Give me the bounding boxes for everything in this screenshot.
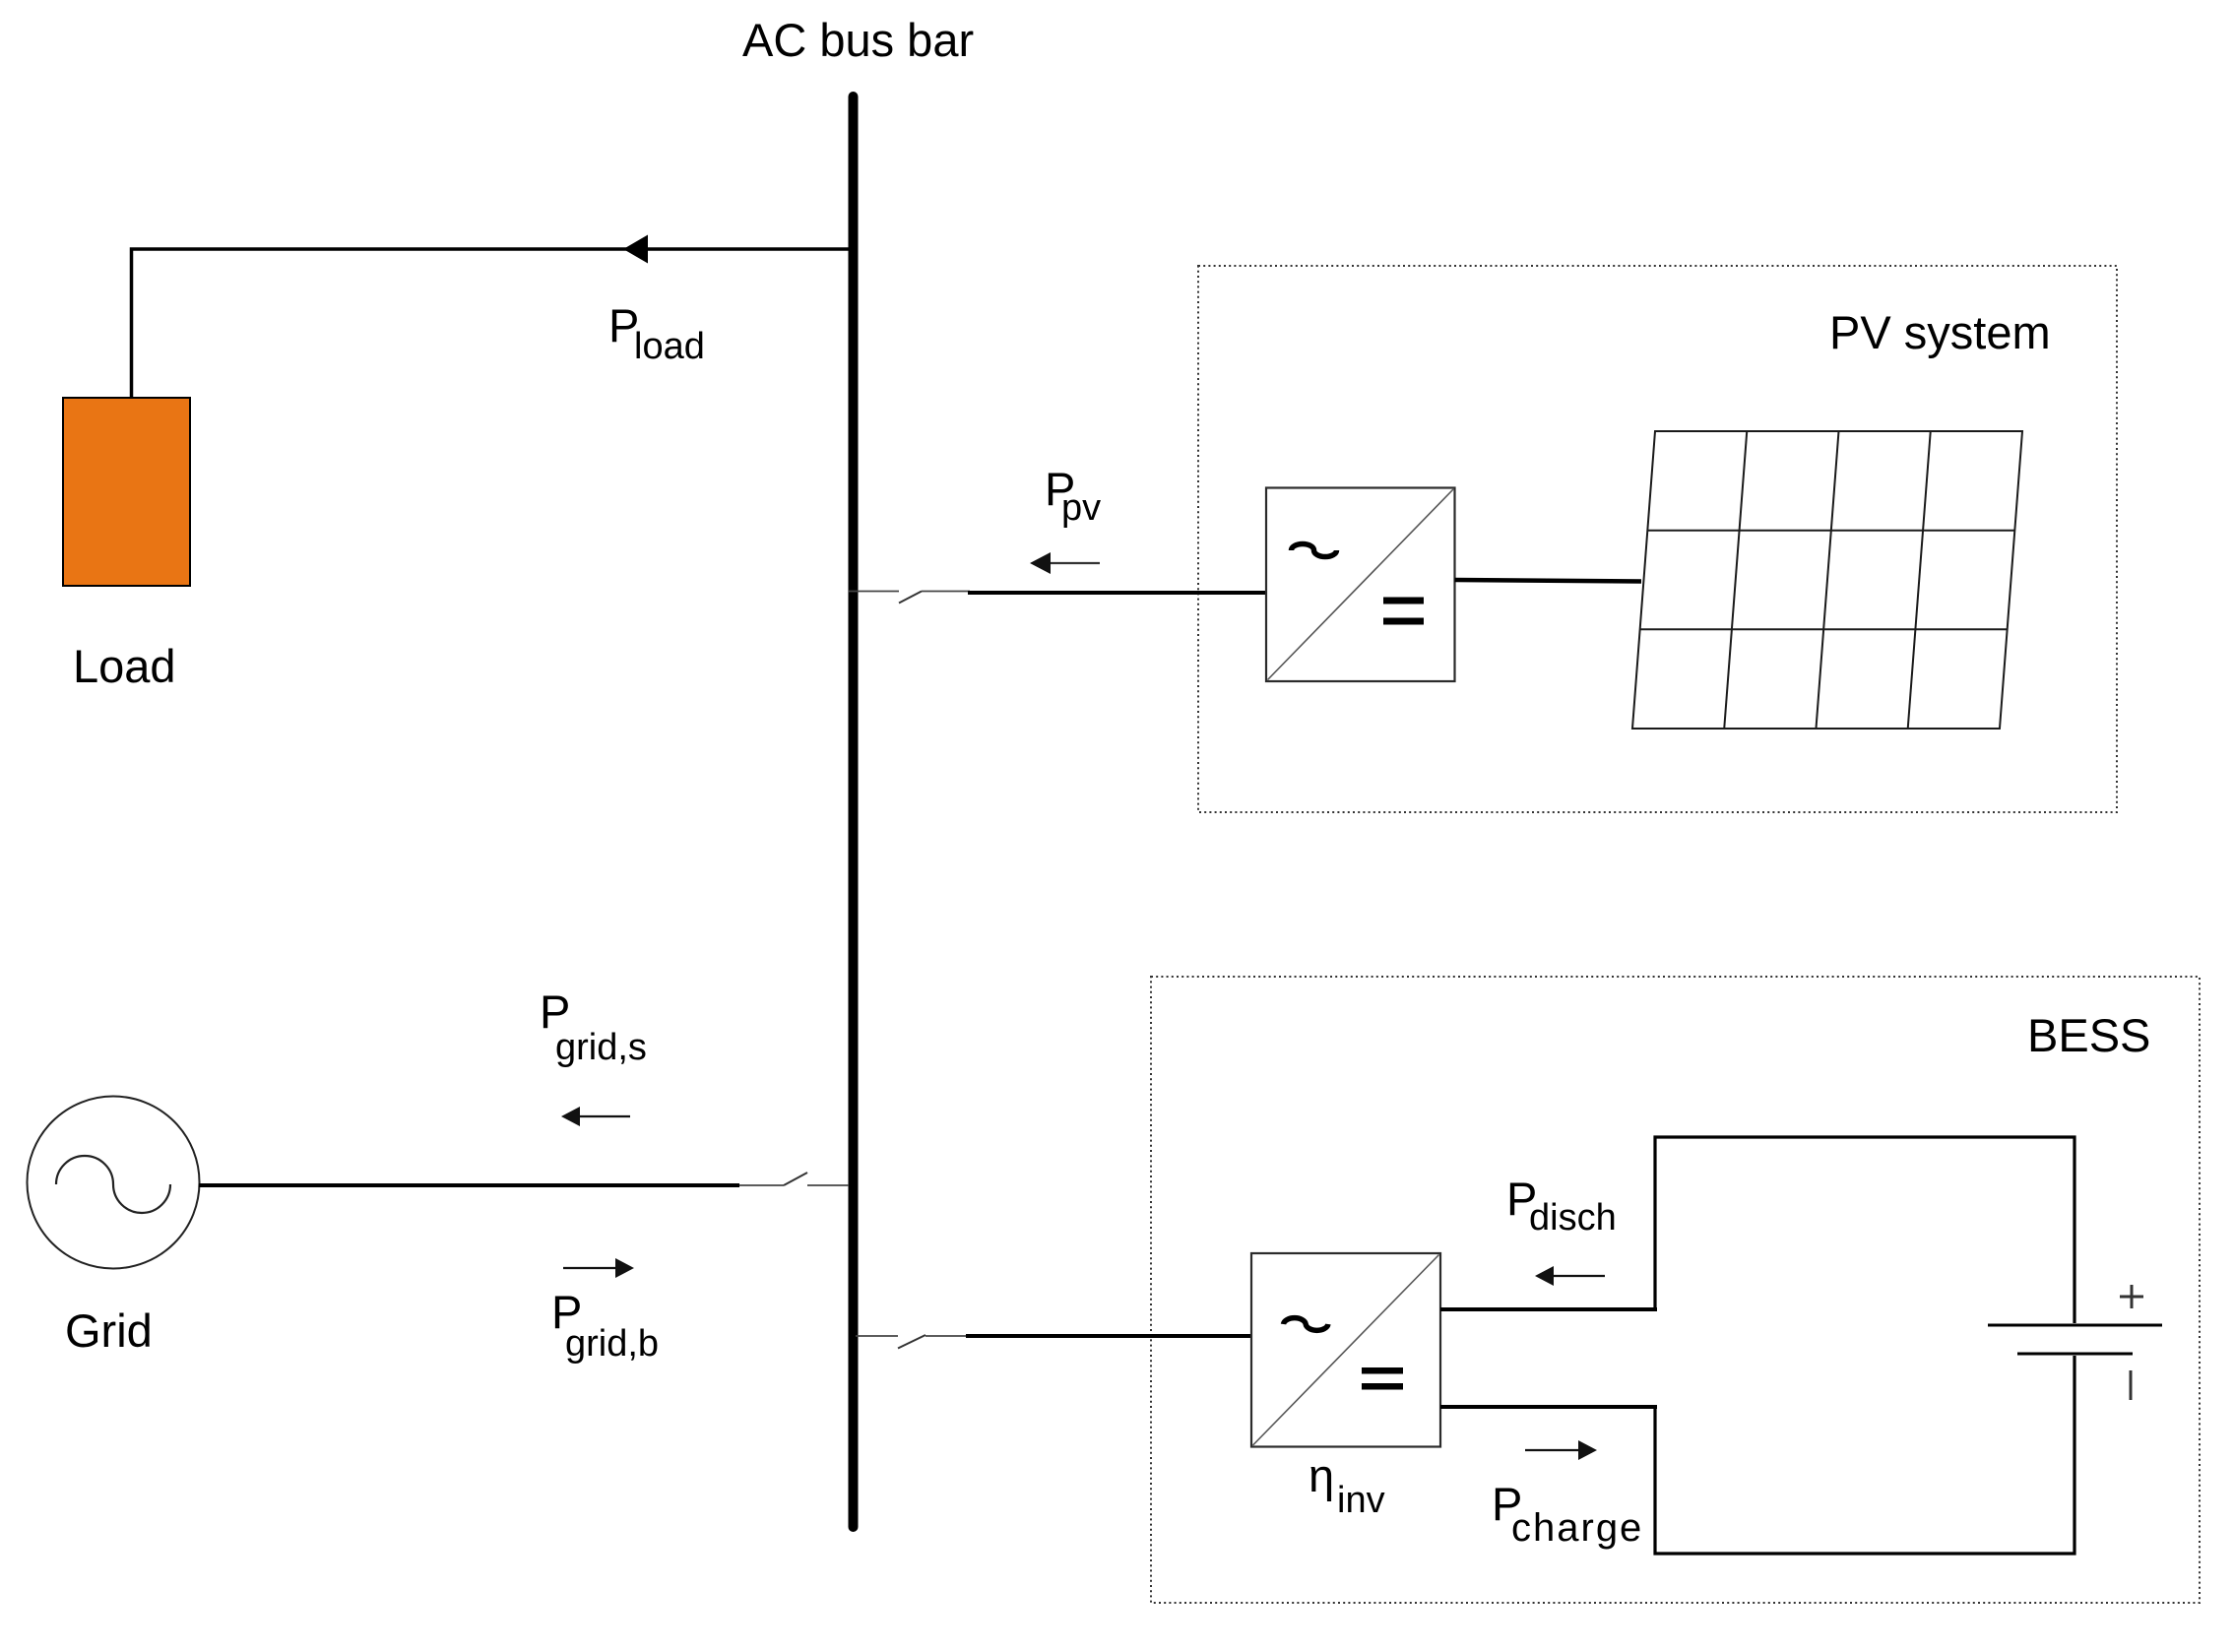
- wire inverter to panel: [1455, 580, 1642, 582]
- label P_load: [608, 299, 705, 367]
- svg-text:BESS: BESS: [2027, 1009, 2150, 1061]
- switch PV branch: [899, 592, 970, 604]
- PV panel PV1: [1632, 431, 2022, 729]
- svg-text:disch: disch: [1529, 1197, 1617, 1239]
- Grid source G1: [28, 1097, 200, 1269]
- label P_disch: [1506, 1173, 1617, 1239]
- svg-text:load: load: [634, 326, 705, 367]
- PV system dotted box: [1198, 266, 2117, 812]
- AC bus bar: [849, 96, 859, 1527]
- label P_charge: [1492, 1478, 1643, 1550]
- label P_pv: [1045, 463, 1101, 529]
- wire load feeder: [132, 249, 849, 398]
- battery minus sign: [2130, 1370, 2133, 1400]
- arrow P_charge: [1525, 1440, 1597, 1460]
- svg-text:Grid: Grid: [65, 1304, 153, 1357]
- wire PV switch to inverter: [968, 591, 1266, 595]
- battery plus sign: [2120, 1285, 2143, 1308]
- wire BESS switch to inverter: [966, 1334, 1251, 1338]
- inverter U1 PV: [1266, 488, 1455, 682]
- label P_grid,b: [551, 1286, 659, 1365]
- svg-text:pv: pv: [1061, 487, 1101, 529]
- wire grid to bus: [199, 1183, 739, 1187]
- arrowhead P_load: [623, 235, 648, 264]
- arrow P_grid,b: [563, 1258, 634, 1278]
- svg-text:charge: charge: [1511, 1506, 1643, 1550]
- battery B1: [1655, 1137, 2162, 1554]
- arrow P_grid,s: [561, 1107, 630, 1126]
- label P_grid,s: [540, 985, 647, 1068]
- svg-text:PV system: PV system: [1829, 306, 2051, 358]
- svg-text:grid,s: grid,s: [555, 1027, 647, 1068]
- inverter U2 BESS: [1251, 1253, 1440, 1447]
- arrow P_disch: [1535, 1266, 1605, 1286]
- label eta_inv: [1308, 1449, 1385, 1521]
- svg-text:inv: inv: [1337, 1480, 1385, 1521]
- load LOAD1: [63, 398, 190, 586]
- svg-text:AC bus bar: AC bus bar: [742, 14, 974, 66]
- wire P_charge: [1440, 1405, 1657, 1409]
- switch grid breaker: [739, 1173, 849, 1185]
- arrow P_pv: [1030, 552, 1100, 574]
- wire P_disch: [1440, 1307, 1657, 1311]
- wire bus to PV switch: [849, 591, 899, 593]
- wire bus to BESS switch: [856, 1335, 898, 1337]
- svg-text:Load: Load: [73, 640, 176, 692]
- switch BESS branch: [898, 1335, 966, 1349]
- BESS dotted box: [1151, 977, 2200, 1603]
- svg-text:η: η: [1308, 1449, 1334, 1501]
- svg-text:grid,b: grid,b: [565, 1323, 659, 1365]
